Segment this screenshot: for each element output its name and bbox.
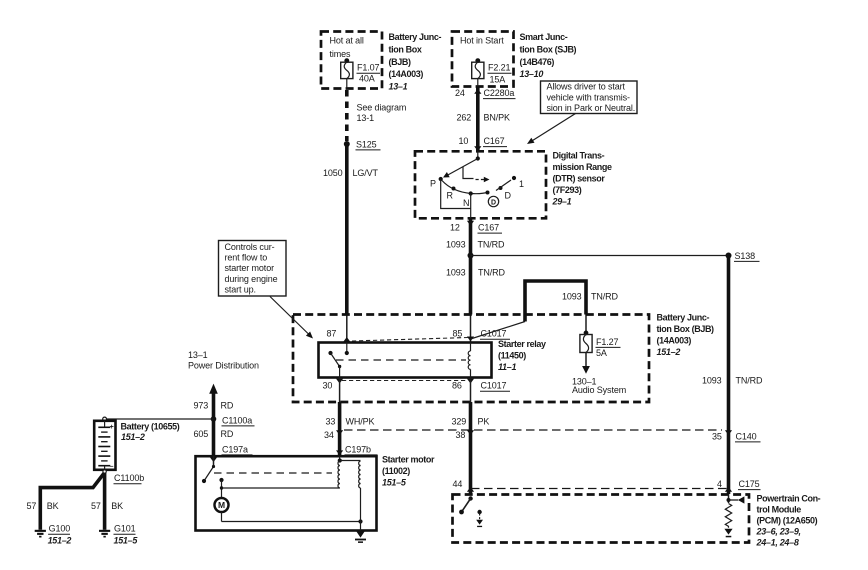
svg-text:Smart Junc-: Smart Junc-: [520, 32, 568, 42]
svg-text:151–2: 151–2: [48, 535, 72, 545]
svg-text:151–2: 151–2: [121, 432, 145, 442]
svg-text:86: 86: [452, 381, 462, 391]
svg-text:(DTR) sensor: (DTR) sensor: [553, 174, 606, 184]
svg-text:4: 4: [717, 479, 722, 489]
svg-text:mission Range: mission Range: [553, 162, 612, 172]
svg-text:C197b: C197b: [345, 444, 371, 454]
svg-text:973: 973: [194, 400, 209, 410]
svg-text:29–1: 29–1: [552, 197, 572, 207]
svg-text:(BJB): (BJB): [389, 57, 411, 67]
svg-text:R: R: [447, 191, 454, 201]
svg-text:C167: C167: [478, 223, 499, 233]
svg-text:Hot at all: Hot at all: [330, 35, 364, 45]
svg-text:24: 24: [455, 88, 465, 98]
svg-text:trol Module: trol Module: [757, 504, 802, 514]
svg-text:151–2: 151–2: [657, 347, 681, 357]
svg-text:starter motor: starter motor: [225, 263, 275, 273]
svg-text:Power Distribution: Power Distribution: [188, 360, 259, 370]
svg-text:sion in Park or Neutral.: sion in Park or Neutral.: [547, 103, 636, 113]
svg-text:Starter relay: Starter relay: [498, 339, 546, 349]
svg-text:PK: PK: [478, 416, 490, 426]
svg-text:15A: 15A: [490, 75, 506, 85]
svg-text:RD: RD: [221, 400, 234, 410]
svg-text:12: 12: [450, 223, 460, 233]
svg-text:(14A003): (14A003): [389, 69, 424, 79]
svg-text:G100: G100: [49, 523, 71, 533]
svg-text:during engine: during engine: [225, 274, 278, 284]
svg-text:13–10: 13–10: [520, 69, 544, 79]
svg-text:38: 38: [456, 430, 466, 440]
svg-text:tion Box (SJB): tion Box (SJB): [520, 44, 577, 54]
svg-text:start up.: start up.: [225, 284, 256, 294]
svg-text:(11002): (11002): [382, 466, 410, 476]
svg-text:BK: BK: [47, 501, 59, 511]
svg-text:F1.27: F1.27: [596, 337, 619, 347]
svg-text:–: –: [110, 463, 114, 470]
svg-text:TN/RD: TN/RD: [478, 239, 506, 249]
svg-text:23–6, 23–9,: 23–6, 23–9,: [756, 527, 801, 537]
svg-text:F1.07: F1.07: [357, 63, 380, 73]
svg-text:TN/RD: TN/RD: [591, 292, 619, 302]
svg-text:BN/PK: BN/PK: [484, 113, 511, 123]
svg-text:Powertrain Con-: Powertrain Con-: [757, 493, 821, 503]
svg-text:C1100b: C1100b: [114, 473, 144, 483]
svg-text:57: 57: [91, 501, 101, 511]
svg-text:Digital Trans-: Digital Trans-: [553, 150, 605, 160]
svg-text:10: 10: [459, 136, 469, 146]
svg-text:BK: BK: [111, 501, 123, 511]
svg-text:tion Box: tion Box: [389, 44, 422, 54]
svg-text:24–1, 24–8: 24–1, 24–8: [756, 538, 799, 548]
svg-text:Battery (10655): Battery (10655): [121, 421, 180, 431]
svg-text:Battery Junc-: Battery Junc-: [657, 312, 710, 322]
svg-text:40A: 40A: [359, 74, 375, 84]
svg-text:Battery Junc-: Battery Junc-: [389, 32, 442, 42]
svg-text:D: D: [491, 199, 496, 206]
svg-text:rent flow to: rent flow to: [225, 253, 268, 263]
svg-text:See diagram: See diagram: [357, 103, 407, 113]
svg-text:1093: 1093: [446, 268, 466, 278]
svg-text:(PCM) (12A650): (PCM) (12A650): [757, 516, 818, 526]
svg-text:Audio System: Audio System: [572, 385, 626, 395]
svg-text:Hot in Start: Hot in Start: [460, 35, 504, 45]
svg-text:D: D: [505, 191, 512, 201]
svg-text:(7F293): (7F293): [553, 185, 582, 195]
svg-text:13–1: 13–1: [389, 82, 408, 92]
svg-text:times: times: [330, 49, 352, 59]
svg-text:13-1: 13-1: [357, 113, 375, 123]
svg-text:(14B476): (14B476): [520, 57, 555, 67]
svg-text:34: 34: [324, 430, 334, 440]
svg-text:S125: S125: [356, 139, 377, 149]
svg-text:Starter motor: Starter motor: [382, 454, 435, 464]
svg-text:Allows driver to start: Allows driver to start: [547, 82, 626, 92]
svg-text:TN/RD: TN/RD: [736, 375, 764, 385]
svg-text:G101: G101: [114, 523, 136, 533]
svg-text:329: 329: [452, 416, 467, 426]
svg-text:1: 1: [519, 179, 524, 189]
svg-text:30: 30: [323, 381, 333, 391]
svg-text:(11450): (11450): [498, 350, 526, 360]
svg-text:13–1: 13–1: [188, 350, 208, 360]
svg-text:35: 35: [712, 431, 722, 441]
svg-text:C1100a: C1100a: [222, 415, 252, 425]
svg-text:1093: 1093: [562, 292, 582, 302]
svg-text:605: 605: [194, 429, 209, 439]
svg-text:F2.21: F2.21: [488, 63, 511, 73]
svg-text:C175: C175: [739, 479, 760, 489]
svg-text:vehicle with transmis-: vehicle with transmis-: [547, 92, 631, 102]
svg-text:P: P: [430, 179, 436, 189]
svg-text:S138: S138: [735, 251, 756, 261]
svg-text:Controls cur-: Controls cur-: [225, 242, 275, 252]
svg-text:85: 85: [453, 329, 463, 339]
svg-text:+: +: [110, 424, 114, 431]
svg-text:151–5: 151–5: [114, 535, 139, 545]
svg-text:C167: C167: [484, 136, 505, 146]
svg-text:C1017: C1017: [481, 329, 507, 339]
svg-text:87: 87: [327, 329, 337, 339]
svg-text:WH/PK: WH/PK: [346, 416, 375, 426]
svg-text:tion Box (BJB): tion Box (BJB): [657, 324, 715, 334]
svg-text:5A: 5A: [596, 348, 607, 358]
svg-text:1093: 1093: [702, 375, 722, 385]
svg-text:RD: RD: [221, 429, 234, 439]
svg-text:151–5: 151–5: [382, 478, 407, 488]
svg-text:33: 33: [326, 416, 336, 426]
svg-text:C2280a: C2280a: [484, 88, 515, 98]
svg-text:C197a: C197a: [222, 444, 248, 454]
svg-text:1050: 1050: [323, 168, 343, 178]
svg-text:57: 57: [27, 501, 37, 511]
svg-text:C1017: C1017: [481, 381, 507, 391]
svg-text:C140: C140: [736, 431, 757, 441]
svg-text:N: N: [463, 198, 469, 208]
svg-text:262: 262: [457, 113, 472, 123]
svg-text:TN/RD: TN/RD: [478, 268, 506, 278]
svg-text:(14A003): (14A003): [657, 336, 692, 346]
svg-text:44: 44: [453, 479, 463, 489]
svg-text:M: M: [218, 500, 225, 510]
svg-text:LG/VT: LG/VT: [353, 168, 379, 178]
svg-text:11–1: 11–1: [498, 362, 516, 372]
svg-text:1093: 1093: [446, 239, 466, 249]
